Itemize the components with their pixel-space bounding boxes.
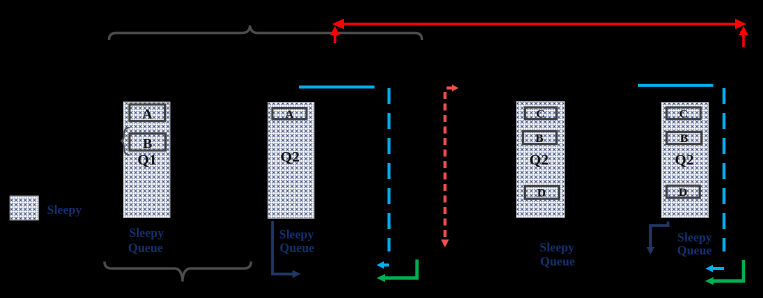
svg-text:Q2: Q2 xyxy=(280,150,299,166)
svg-text:Sleepy: Sleepy xyxy=(129,226,164,240)
svg-text:C: C xyxy=(679,107,688,121)
svg-text:D: D xyxy=(537,186,546,200)
svg-text:D: D xyxy=(679,185,688,199)
svg-text:B: B xyxy=(535,131,543,145)
svg-text:Queue: Queue xyxy=(677,244,712,258)
svg-text:Sleepy: Sleepy xyxy=(677,231,712,245)
svg-text:Sleepy: Sleepy xyxy=(540,241,575,255)
svg-text:Q2: Q2 xyxy=(675,153,694,169)
svg-text:B: B xyxy=(143,137,152,152)
svg-text:Queue: Queue xyxy=(540,255,575,269)
svg-text:Sleepy: Sleepy xyxy=(47,203,82,217)
svg-text:Sleepy: Sleepy xyxy=(279,228,314,242)
svg-text:Queue: Queue xyxy=(280,241,315,255)
svg-text:B: B xyxy=(680,131,688,145)
svg-text:A: A xyxy=(285,107,294,121)
svg-text:Queue: Queue xyxy=(128,241,163,255)
svg-text:Q1: Q1 xyxy=(137,153,156,169)
svg-text:C: C xyxy=(536,107,545,121)
svg-text:A: A xyxy=(142,108,153,123)
svg-text:Q2: Q2 xyxy=(529,153,548,169)
